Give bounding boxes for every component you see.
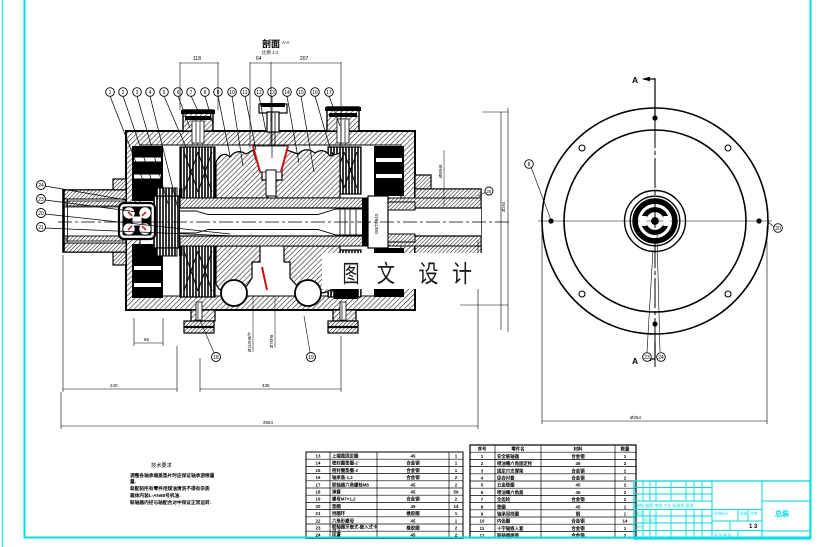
svg-text:12: 12 — [256, 90, 262, 96]
dim 118 top — [180, 62, 218, 110]
svg-text:23: 23 — [644, 355, 650, 361]
svg-text:2564: 2564 — [263, 420, 274, 425]
parts table left — [306, 452, 463, 538]
bolt dot S — [652, 321, 657, 326]
svg-text:20: 20 — [316, 504, 321, 509]
dim 564 overall — [61, 240, 478, 429]
svg-text:序号: 序号 — [478, 446, 487, 453]
gear mass upper left — [216, 150, 268, 198]
svg-text:25: 25 — [486, 189, 492, 194]
svg-text:比例 1:2: 比例 1:2 — [262, 49, 279, 56]
svg-text:3: 3 — [136, 90, 139, 96]
bolt dot W — [548, 218, 553, 223]
coupling sleeve box — [362, 196, 388, 248]
section arrow A top — [632, 75, 655, 118]
coupling hub right — [388, 202, 415, 242]
right flange plate — [415, 175, 431, 269]
svg-text:45: 45 — [576, 461, 581, 466]
main shaft — [180, 198, 481, 246]
rotated dim labels under housing — [253, 296, 275, 352]
svg-text:装配前所有零件用煤油清洗不得有杂质: 装配前所有零件用煤油清洗不得有杂质 — [130, 485, 210, 492]
bearing pack under bottom right boss — [328, 250, 361, 297]
left shaft tube — [63, 190, 126, 252]
right vertical dim — [460, 108, 508, 332]
svg-text:14: 14 — [623, 519, 628, 524]
svg-text:7: 7 — [190, 90, 193, 96]
svg-text:喷油嘴六角盖: 喷油嘴六角盖 — [497, 489, 524, 496]
outer flange circle — [542, 108, 768, 334]
svg-text:118: 118 — [193, 56, 201, 62]
dim 207 top — [271, 62, 341, 148]
svg-text:17: 17 — [326, 90, 332, 96]
right cells — [762, 501, 810, 531]
svg-text:挡圈环: 挡圈环 — [331, 510, 346, 517]
svg-text:数量: 数量 — [621, 446, 630, 453]
svg-text:64: 64 — [256, 56, 262, 62]
bearing pack under top left boss — [180, 147, 215, 198]
svg-text:16: 16 — [316, 475, 321, 480]
svg-text:A: A — [632, 356, 638, 366]
svg-text:合金钢: 合金钢 — [571, 453, 585, 460]
bearing ball left — [221, 280, 247, 306]
svg-text:签字: 签字 — [636, 511, 644, 516]
dim Ø264 under circle — [542, 226, 767, 424]
svg-text:橡胶圈: 橡胶圈 — [406, 525, 420, 532]
vertical centerline — [654, 78, 656, 367]
watermark — [322, 253, 490, 289]
dim 240 bottom — [63, 255, 177, 392]
svg-text:Ø264: Ø264 — [630, 415, 642, 420]
gear mass lower left — [216, 246, 260, 293]
svg-text:45: 45 — [576, 504, 581, 509]
balloon 19 bottom — [304, 316, 310, 352]
svg-text:13: 13 — [269, 90, 275, 96]
svg-text:19: 19 — [316, 497, 321, 502]
universal joint cross — [119, 203, 155, 239]
svg-text:上端盖固定圈: 上端盖固定圈 — [332, 453, 359, 460]
title block frame — [634, 481, 810, 539]
svg-text:钢: 钢 — [576, 511, 581, 518]
bolt hole SE — [725, 291, 731, 297]
svg-text:安全联轴器: 安全联轴器 — [497, 453, 520, 460]
svg-text:调整各轴承端盖垫片时应保证轴承游隙量: 调整各轴承端盖垫片时应保证轴承游隙量 — [130, 472, 215, 479]
svg-text:24: 24 — [38, 183, 44, 189]
oil funnel with red edges — [253, 146, 288, 196]
svg-text:轴承用挡圈: 轴承用挡圈 — [497, 511, 520, 518]
svg-text:合金钢: 合金钢 — [571, 467, 585, 474]
svg-text:轴承盖-1,2: 轴承盖-1,2 — [332, 474, 353, 481]
svg-text:14: 14 — [316, 461, 321, 466]
middle grid — [712, 510, 762, 540]
balloon 20 right of circle — [768, 222, 774, 227]
svg-text:8: 8 — [528, 162, 531, 168]
svg-text:18: 18 — [213, 355, 219, 361]
svg-text:六角形螺母: 六角形螺母 — [332, 517, 355, 524]
svg-text:综合衬套: 综合衬套 — [497, 475, 515, 482]
dim 65 bottom left — [134, 318, 163, 346]
svg-text:文: 文 — [377, 261, 395, 288]
svg-text:螺母M7×1,2: 螺母M7×1,2 — [332, 496, 356, 503]
svg-text:A: A — [632, 75, 638, 85]
svg-text:Ø110H8/f7: Ø110H8/f7 — [247, 331, 252, 352]
stator block lower left — [132, 244, 163, 298]
svg-text:标记: 标记 — [636, 524, 644, 529]
svg-text:21: 21 — [38, 225, 44, 231]
svg-text:45: 45 — [411, 504, 416, 509]
svg-text:合金钢: 合金钢 — [571, 518, 585, 525]
svg-text:零件名: 零件名 — [510, 446, 524, 453]
svg-text:十字轴嵌入套: 十字轴嵌入套 — [497, 525, 524, 532]
svg-text:密封圈垫圈-2: 密封圈垫圈-2 — [332, 460, 358, 467]
dim 64 top — [250, 62, 271, 148]
bolt dot E — [756, 218, 761, 223]
bearing pack under bottom left boss — [180, 246, 215, 297]
left grid verticals — [643, 481, 702, 539]
svg-text:喷油嘴六角固定栓: 喷油嘴六角固定栓 — [497, 460, 533, 467]
svg-text:20: 20 — [38, 211, 44, 217]
svg-text:21: 21 — [316, 511, 321, 516]
left flange plate — [113, 179, 126, 265]
left balloons 21-24 — [45, 186, 235, 236]
horizontal centerline — [538, 220, 772, 222]
parts table right — [470, 445, 636, 538]
balloon 18 bottom — [200, 320, 214, 353]
title block texts — [636, 502, 789, 538]
housing — [126, 131, 415, 310]
svg-text:五金垫圈: 五金垫圈 — [497, 482, 515, 489]
svg-text:合金钢: 合金钢 — [571, 525, 585, 532]
bottom bearing boss right — [328, 302, 358, 333]
svg-text:密封圈垫圈-3: 密封圈垫圈-3 — [332, 467, 358, 474]
section arrow A bottom — [632, 342, 655, 366]
bolt hole NW — [579, 145, 585, 151]
svg-text:5: 5 — [163, 90, 166, 96]
svg-text:16: 16 — [312, 90, 318, 96]
svg-text:45: 45 — [411, 482, 416, 487]
svg-text:45: 45 — [411, 518, 416, 523]
svg-text:弹簧: 弹簧 — [332, 489, 341, 496]
svg-text:240: 240 — [110, 383, 118, 388]
dim 436 bottom — [200, 336, 341, 392]
svg-text:20: 20 — [775, 226, 781, 232]
svg-text:10: 10 — [229, 90, 235, 96]
svg-text:11: 11 — [242, 90, 247, 96]
clutch plate pack — [154, 188, 183, 256]
svg-text:Ø264: Ø264 — [501, 201, 506, 212]
right shaft tube — [415, 189, 481, 255]
svg-text:合金钢: 合金钢 — [406, 460, 420, 467]
gear mass upper right — [276, 150, 340, 198]
svg-text:制图 描图 审核 工艺 标准化 批准: 制图 描图 审核 工艺 标准化 批准 — [636, 502, 694, 508]
svg-text:Ø75H8: Ø75H8 — [269, 334, 274, 348]
svg-text:1 3: 1 3 — [749, 524, 758, 530]
svg-text:联轴器六角螺栓M8: 联轴器六角螺栓M8 — [332, 481, 369, 488]
svg-text:18: 18 — [316, 490, 321, 495]
svg-text:剖面: 剖面 — [262, 38, 280, 49]
svg-text:总装: 总装 — [775, 509, 789, 518]
svg-text:橡胶圈: 橡胶圈 — [406, 510, 420, 517]
svg-text:45: 45 — [411, 454, 416, 459]
svg-text:垫圈: 垫圈 — [497, 503, 506, 510]
svg-text:计: 计 — [452, 261, 472, 288]
stator block upper left — [132, 146, 163, 201]
svg-text:19: 19 — [308, 355, 314, 361]
top bearing boss right — [325, 107, 361, 143]
svg-text:14: 14 — [284, 90, 290, 96]
bearing pack under top right boss — [328, 147, 361, 194]
svg-text:联轴器内径与轴配合对中保证正常运转.: 联轴器内径与轴配合对中保证正常运转. — [130, 499, 211, 506]
svg-text:13: 13 — [316, 454, 321, 459]
svg-text:45: 45 — [411, 490, 416, 495]
svg-text:8: 8 — [204, 90, 207, 96]
svg-text:全齿轮: 全齿轮 — [496, 496, 511, 503]
top center stem — [259, 103, 287, 160]
svg-text:量.: 量. — [130, 478, 136, 485]
svg-text:设: 设 — [419, 261, 439, 288]
svg-text:Ø80H8: Ø80H8 — [438, 164, 443, 178]
center line — [58, 221, 512, 223]
svg-text:23: 23 — [316, 526, 321, 531]
svg-text:技术要求: 技术要求 — [151, 461, 173, 469]
svg-text:内齿圈: 内齿圈 — [497, 518, 511, 525]
bearing ball right — [295, 280, 321, 306]
gear mass lower right — [284, 246, 340, 293]
svg-text:22: 22 — [316, 518, 321, 523]
top bearing boss left — [181, 110, 215, 143]
svg-text:23: 23 — [38, 197, 44, 203]
stator block upper right — [374, 146, 404, 196]
rotated label at tube — [443, 150, 445, 206]
svg-text:阶段标记: 阶段标记 — [714, 511, 729, 516]
svg-text:固定爪支撑架: 固定爪支撑架 — [497, 467, 524, 474]
svg-text:垫圈: 垫圈 — [332, 503, 341, 510]
balloon leaders top — [110, 96, 340, 209]
svg-text:10: 10 — [480, 519, 485, 524]
bottom bearing boss left — [184, 302, 215, 333]
svg-text:2: 2 — [122, 90, 125, 96]
svg-text:合金钢: 合金钢 — [406, 496, 420, 503]
bolt hole SW — [579, 291, 585, 297]
red seal line lower — [262, 267, 267, 290]
bolt hole NE — [725, 145, 731, 151]
svg-text:箱体内装L-AN68号机油.: 箱体内装L-AN68号机油. — [129, 492, 181, 499]
svg-text:59: 59 — [454, 490, 459, 495]
svg-text:15: 15 — [298, 90, 304, 96]
svg-text:材料: 材料 — [574, 446, 583, 453]
svg-text:45: 45 — [576, 490, 581, 495]
balloons 23 24 bottom of circle — [647, 250, 653, 352]
svg-text:17: 17 — [316, 482, 321, 487]
svg-text:4: 4 — [149, 90, 152, 96]
svg-text:11: 11 — [480, 526, 485, 531]
svg-text:24: 24 — [658, 355, 664, 361]
bolt dot N — [652, 115, 657, 120]
balloon 25 right tube — [478, 192, 486, 196]
svg-text:合金钢: 合金钢 — [406, 474, 420, 481]
stator block lower right — [374, 248, 404, 297]
svg-text:合金钢: 合金钢 — [571, 496, 585, 503]
svg-text:436: 436 — [262, 383, 270, 388]
svg-text:图: 图 — [343, 262, 360, 288]
svg-text:14: 14 — [454, 504, 459, 509]
balloons 1-17 — [106, 88, 334, 97]
svg-text:GB/T5843: GB/T5843 — [374, 213, 379, 234]
svg-text:合金钢: 合金钢 — [571, 475, 585, 482]
svg-text:年.月.日: 年.月.日 — [644, 517, 657, 522]
inner flange circle — [564, 130, 746, 312]
svg-text:合金钢: 合金钢 — [406, 467, 420, 474]
hub circles — [625, 191, 686, 252]
svg-text:1: 1 — [109, 90, 112, 96]
svg-text:65: 65 — [144, 337, 150, 342]
svg-text:45: 45 — [576, 483, 581, 488]
svg-text:比例: 比例 — [750, 511, 758, 516]
balloon 8 left of circle — [531, 167, 551, 220]
svg-text:质量: 质量 — [740, 511, 748, 516]
svg-text:207: 207 — [300, 56, 309, 62]
left grid horizontals — [634, 488, 712, 531]
svg-text:6: 6 — [177, 90, 180, 96]
svg-text:15: 15 — [316, 468, 321, 473]
svg-text:A-A: A-A — [282, 40, 290, 45]
